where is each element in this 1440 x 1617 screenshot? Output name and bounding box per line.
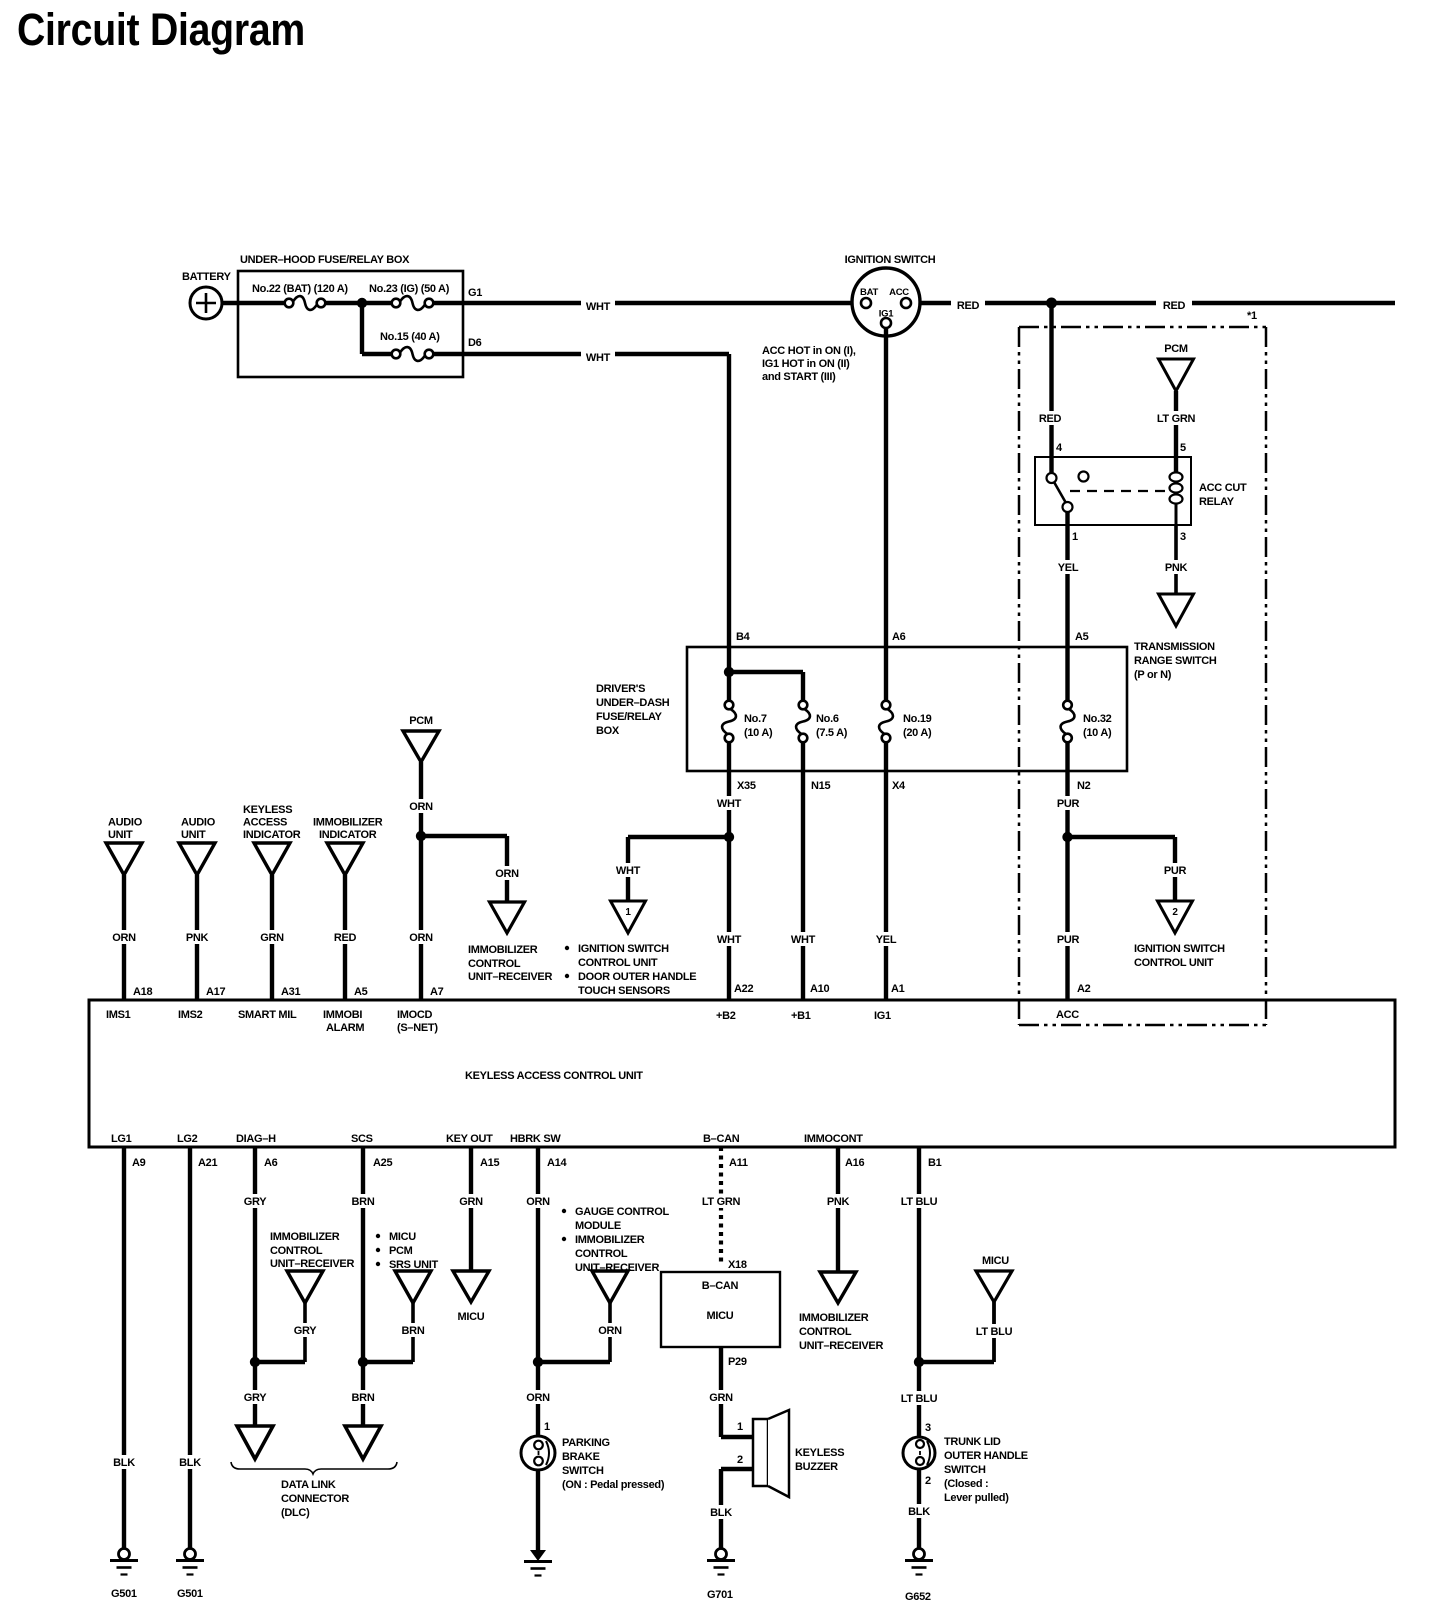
svg-text:ALARM: ALARM (326, 1022, 364, 1034)
svg-text:5: 5 (1180, 442, 1186, 454)
svg-text:RED: RED (957, 300, 980, 312)
svg-text:A11: A11 (729, 1157, 748, 1169)
svg-text:ORN: ORN (409, 932, 433, 944)
svg-text:CONTROL: CONTROL (575, 1248, 628, 1260)
svg-text:ORN: ORN (526, 1196, 550, 1208)
svg-text:BUZZER: BUZZER (795, 1461, 838, 1473)
svg-text:2: 2 (737, 1454, 743, 1466)
svg-text:No.6: No.6 (816, 713, 839, 725)
svg-text:SRS UNIT: SRS UNIT (389, 1259, 439, 1271)
svg-text:Circuit Diagram: Circuit Diagram (17, 4, 305, 55)
svg-text:UNIT: UNIT (108, 829, 133, 841)
svg-text:YEL: YEL (876, 934, 897, 946)
svg-text:IGNITION SWITCH: IGNITION SWITCH (1134, 943, 1225, 955)
svg-text:GRN: GRN (709, 1392, 733, 1404)
svg-text:+B1: +B1 (791, 1010, 811, 1022)
svg-text:1: 1 (625, 907, 631, 918)
svg-text:IGNITION SWITCH: IGNITION SWITCH (845, 254, 936, 266)
svg-text:UNIT–RECEIVER: UNIT–RECEIVER (270, 1258, 354, 1270)
svg-text:A15: A15 (480, 1157, 499, 1169)
svg-text:G501: G501 (111, 1588, 137, 1600)
svg-text:A5: A5 (354, 986, 368, 998)
svg-text:DOOR OUTER HANDLE: DOOR OUTER HANDLE (578, 971, 696, 983)
svg-text:A18: A18 (133, 986, 152, 998)
svg-text:BATTERY: BATTERY (182, 271, 232, 283)
svg-text:3: 3 (925, 1422, 931, 1434)
svg-text:LG2: LG2 (177, 1133, 198, 1145)
svg-text:A6: A6 (892, 631, 906, 643)
svg-text:PNK: PNK (827, 1196, 850, 1208)
svg-text:RANGE SWITCH: RANGE SWITCH (1134, 655, 1217, 667)
svg-text:2: 2 (925, 1475, 931, 1487)
svg-text:SCS: SCS (351, 1133, 373, 1145)
svg-text:IMS1: IMS1 (106, 1009, 131, 1021)
svg-text:BAT: BAT (860, 287, 878, 298)
svg-text:ORN: ORN (409, 801, 433, 813)
svg-text:PCM: PCM (389, 1245, 413, 1257)
svg-text:A31: A31 (281, 986, 300, 998)
svg-text:IMMOBILIZER: IMMOBILIZER (313, 817, 383, 829)
svg-text:IMMOBI: IMMOBI (323, 1009, 362, 1021)
svg-text:KEYLESS: KEYLESS (243, 804, 292, 816)
svg-text:CONNECTOR: CONNECTOR (281, 1493, 349, 1505)
svg-text:B4: B4 (736, 631, 751, 643)
svg-text:KEYLESS ACCESS CONTROL UNIT: KEYLESS ACCESS CONTROL UNIT (465, 1070, 643, 1082)
svg-text:LT GRN: LT GRN (1157, 413, 1196, 425)
svg-text:ACC CUT: ACC CUT (1199, 482, 1247, 494)
svg-text:A6: A6 (264, 1157, 278, 1169)
svg-text:A9: A9 (132, 1157, 146, 1169)
svg-text:WHT: WHT (586, 352, 611, 364)
svg-text:GRN: GRN (260, 932, 284, 944)
svg-text:LT GRN: LT GRN (702, 1196, 741, 1208)
svg-text:MICU: MICU (707, 1310, 734, 1322)
svg-text:X35: X35 (737, 780, 756, 792)
svg-text:GRY: GRY (244, 1196, 267, 1208)
svg-text:AUDIO: AUDIO (108, 817, 143, 829)
svg-text:A14: A14 (547, 1157, 567, 1169)
svg-text:B–CAN: B–CAN (703, 1133, 740, 1145)
svg-text:+B2: +B2 (716, 1010, 736, 1022)
svg-text:SMART MIL: SMART MIL (238, 1009, 297, 1021)
svg-text:RED: RED (1163, 300, 1186, 312)
svg-text:WHT: WHT (616, 865, 641, 877)
svg-text:IG1: IG1 (874, 1010, 891, 1022)
svg-text:X18: X18 (728, 1259, 747, 1271)
svg-text:1: 1 (544, 1421, 550, 1433)
svg-text:(Closed :: (Closed : (944, 1478, 988, 1490)
svg-text:CONTROL UNIT: CONTROL UNIT (578, 957, 658, 969)
svg-text:A25: A25 (373, 1157, 392, 1169)
svg-text:CONTROL UNIT: CONTROL UNIT (1134, 957, 1214, 969)
svg-text:A10: A10 (810, 983, 829, 995)
svg-text:No.23 (IG) (50 A): No.23 (IG) (50 A) (369, 283, 450, 295)
svg-text:GAUGE CONTROL: GAUGE CONTROL (575, 1206, 669, 1218)
svg-text:PCM: PCM (409, 715, 433, 727)
svg-text:PUR: PUR (1164, 865, 1187, 877)
svg-text:UNIT: UNIT (181, 829, 206, 841)
svg-text:MICU: MICU (458, 1311, 485, 1323)
svg-text:MICU: MICU (389, 1231, 416, 1243)
svg-text:ACCESS: ACCESS (243, 817, 287, 829)
svg-text:BLK: BLK (179, 1457, 201, 1469)
svg-text:DIAG–H: DIAG–H (236, 1133, 276, 1145)
svg-text:No.7: No.7 (744, 713, 767, 725)
svg-text:(S–NET): (S–NET) (397, 1022, 438, 1034)
svg-text:A21: A21 (198, 1157, 217, 1169)
svg-text:No.19: No.19 (903, 713, 932, 725)
svg-text:YEL: YEL (1058, 562, 1079, 574)
svg-text:A16: A16 (845, 1157, 864, 1169)
svg-text:PARKING: PARKING (562, 1437, 610, 1449)
svg-text:2: 2 (1172, 907, 1178, 918)
svg-text:G701: G701 (707, 1589, 733, 1601)
svg-text:A7: A7 (430, 986, 444, 998)
svg-text:(10 A): (10 A) (1083, 727, 1112, 739)
svg-text:No.22 (BAT) (120 A): No.22 (BAT) (120 A) (252, 283, 348, 295)
svg-text:WHT: WHT (717, 798, 742, 810)
svg-text:BLK: BLK (710, 1507, 732, 1519)
svg-text:AUDIO: AUDIO (181, 817, 216, 829)
svg-text:WHT: WHT (717, 934, 742, 946)
svg-text:MODULE: MODULE (575, 1220, 621, 1232)
svg-text:WHT: WHT (586, 301, 611, 313)
svg-text:INDICATOR: INDICATOR (319, 829, 377, 841)
svg-text:IMMOBILIZER: IMMOBILIZER (575, 1234, 645, 1246)
svg-text:1: 1 (1072, 531, 1078, 543)
svg-text:IMMOBILIZER: IMMOBILIZER (468, 944, 538, 956)
svg-text:(7.5 A): (7.5 A) (816, 727, 848, 739)
svg-text:GRY: GRY (244, 1392, 267, 1404)
svg-text:TRANSMISSION: TRANSMISSION (1134, 641, 1215, 653)
svg-text:UNIT–RECEIVER: UNIT–RECEIVER (799, 1340, 883, 1352)
svg-text:KEYLESS: KEYLESS (795, 1447, 844, 1459)
svg-text:IMOCD: IMOCD (397, 1009, 433, 1021)
svg-text:RED: RED (334, 932, 357, 944)
svg-text:IMS2: IMS2 (178, 1009, 203, 1021)
svg-text:G501: G501 (177, 1588, 203, 1600)
svg-text:BRN: BRN (402, 1325, 425, 1337)
svg-text:A17: A17 (206, 986, 225, 998)
svg-text:PCM: PCM (1164, 343, 1188, 355)
svg-text:IMMOBILIZER: IMMOBILIZER (270, 1231, 340, 1243)
svg-text:CONTROL: CONTROL (799, 1326, 852, 1338)
svg-text:BRN: BRN (352, 1392, 375, 1404)
svg-text:ORN: ORN (495, 868, 519, 880)
svg-text:G652: G652 (905, 1591, 931, 1603)
svg-text:SWITCH: SWITCH (562, 1465, 604, 1477)
svg-text:CONTROL: CONTROL (468, 958, 521, 970)
svg-text:LG1: LG1 (111, 1133, 132, 1145)
svg-text:LT BLU: LT BLU (901, 1393, 938, 1405)
svg-text:TRUNK LID: TRUNK LID (944, 1436, 1001, 1448)
svg-text:DATA LINK: DATA LINK (281, 1479, 336, 1491)
svg-text:B1: B1 (928, 1157, 942, 1169)
svg-text:IG1 HOT in ON (II): IG1 HOT in ON (II) (762, 358, 850, 370)
svg-text:(10 A): (10 A) (744, 727, 773, 739)
svg-text:SWITCH: SWITCH (944, 1464, 986, 1476)
svg-text:KEY OUT: KEY OUT (446, 1133, 493, 1145)
svg-text:UNIT–RECEIVER: UNIT–RECEIVER (468, 971, 552, 983)
svg-text:N2: N2 (1077, 780, 1091, 792)
svg-text:ORN: ORN (526, 1392, 550, 1404)
svg-text:GRY: GRY (294, 1325, 317, 1337)
svg-text:HBRK SW: HBRK SW (510, 1133, 561, 1145)
svg-text:PUR: PUR (1057, 798, 1080, 810)
svg-text:PNK: PNK (186, 932, 209, 944)
svg-text:(DLC): (DLC) (281, 1507, 310, 1519)
svg-text:1: 1 (737, 1421, 743, 1433)
svg-text:ACC: ACC (1056, 1009, 1079, 1021)
svg-text:BLK: BLK (113, 1457, 135, 1469)
svg-text:P29: P29 (728, 1356, 747, 1368)
svg-text:DRIVER'S: DRIVER'S (596, 683, 645, 695)
svg-text:D6: D6 (468, 337, 482, 349)
svg-text:PNK: PNK (1165, 562, 1188, 574)
svg-text:ACC: ACC (889, 287, 909, 298)
svg-text:UNDER–DASH: UNDER–DASH (596, 697, 670, 709)
svg-text:IG1: IG1 (879, 309, 894, 320)
svg-text:A2: A2 (1077, 983, 1091, 995)
svg-text:*1: *1 (1247, 310, 1257, 322)
svg-text:LT BLU: LT BLU (976, 1326, 1013, 1338)
svg-text:A22: A22 (734, 983, 753, 995)
svg-text:A5: A5 (1075, 631, 1089, 643)
svg-text:RELAY: RELAY (1199, 496, 1235, 508)
svg-text:IMMOCONT: IMMOCONT (804, 1133, 863, 1145)
svg-text:WHT: WHT (791, 934, 816, 946)
svg-text:IGNITION SWITCH: IGNITION SWITCH (578, 943, 669, 955)
svg-text:and START (III): and START (III) (762, 371, 836, 383)
svg-text:X4: X4 (892, 780, 906, 792)
svg-text:GRN: GRN (459, 1196, 483, 1208)
svg-text:CONTROL: CONTROL (270, 1245, 323, 1257)
svg-text:BRAKE: BRAKE (562, 1451, 600, 1463)
svg-text:B–CAN: B–CAN (702, 1280, 739, 1292)
svg-text:ORN: ORN (598, 1325, 622, 1337)
svg-text:Lever pulled): Lever pulled) (944, 1492, 1009, 1504)
svg-text:A1: A1 (891, 983, 905, 995)
svg-text:G1: G1 (468, 287, 482, 299)
svg-text:No.15 (40 A): No.15 (40 A) (380, 331, 440, 343)
svg-text:(20 A): (20 A) (903, 727, 932, 739)
svg-text:OUTER HANDLE: OUTER HANDLE (944, 1450, 1028, 1462)
svg-text:No.32: No.32 (1083, 713, 1112, 725)
svg-text:RED: RED (1039, 413, 1062, 425)
svg-text:FUSE/RELAY: FUSE/RELAY (596, 711, 663, 723)
svg-text:ORN: ORN (112, 932, 136, 944)
svg-text:INDICATOR: INDICATOR (243, 829, 301, 841)
svg-text:ACC HOT in ON (I),: ACC HOT in ON (I), (762, 345, 856, 357)
svg-text:IMMOBILIZER: IMMOBILIZER (799, 1312, 869, 1324)
svg-text:UNDER–HOOD FUSE/RELAY BOX: UNDER–HOOD FUSE/RELAY BOX (240, 254, 410, 266)
svg-text:3: 3 (1180, 531, 1186, 543)
svg-text:LT BLU: LT BLU (901, 1196, 938, 1208)
svg-text:N15: N15 (811, 780, 830, 792)
svg-text:TOUCH SENSORS: TOUCH SENSORS (578, 985, 670, 997)
svg-text:BLK: BLK (908, 1506, 930, 1518)
svg-text:BRN: BRN (352, 1196, 375, 1208)
svg-text:MICU: MICU (982, 1255, 1009, 1267)
svg-text:(ON : Pedal pressed): (ON : Pedal pressed) (562, 1479, 665, 1491)
svg-text:PUR: PUR (1057, 934, 1080, 946)
svg-text:BOX: BOX (596, 725, 620, 737)
svg-text:(P or N): (P or N) (1134, 669, 1172, 681)
